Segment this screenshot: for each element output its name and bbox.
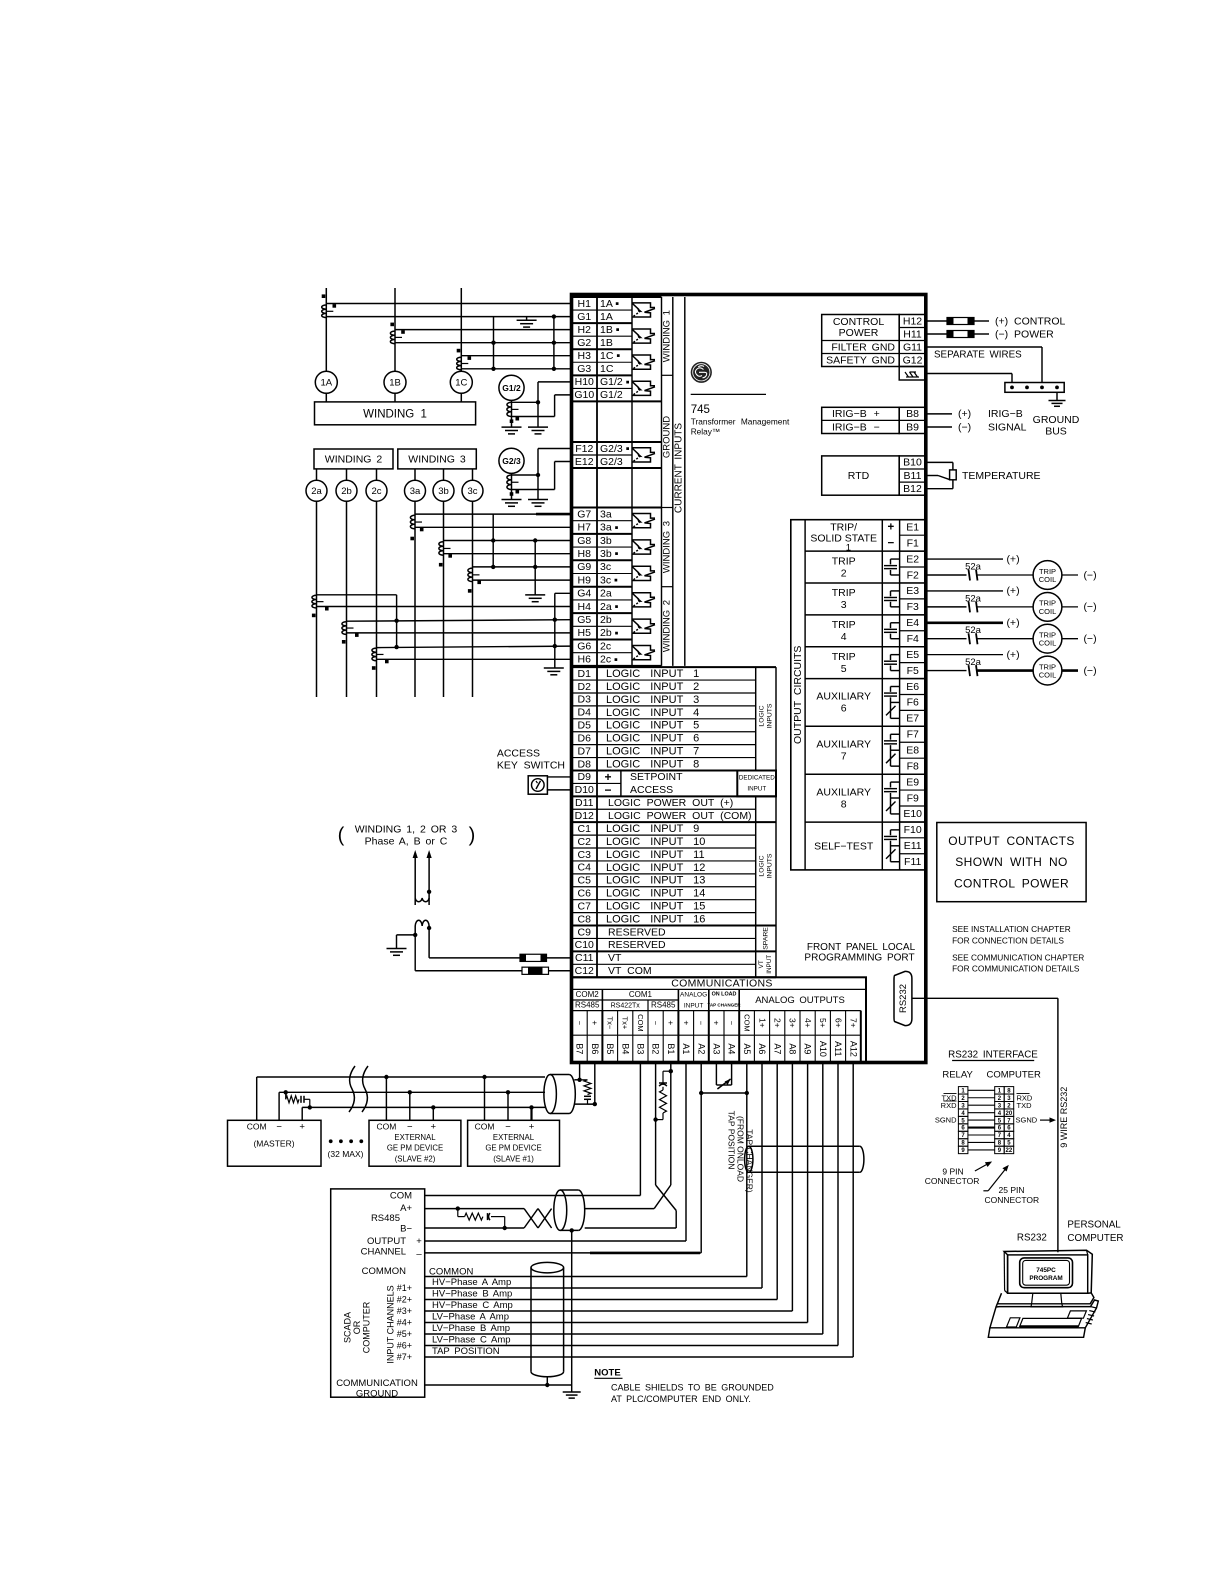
svg-text:VT COM: VT COM bbox=[608, 965, 652, 977]
svg-text:#7+: #7+ bbox=[397, 1352, 412, 1362]
svg-text:B11: B11 bbox=[904, 470, 922, 482]
svg-text:COM: COM bbox=[390, 1191, 412, 1202]
trip 3 external circuit bbox=[926, 585, 1097, 621]
analog output wire 4 bbox=[425, 1063, 808, 1323]
svg-text:Transformer Management: Transformer Management bbox=[691, 417, 790, 427]
svg-text:+: + bbox=[416, 1236, 422, 1247]
node 3a bbox=[405, 469, 426, 501]
communications terminal row bbox=[575, 1041, 859, 1057]
svg-text:LOGIC: LOGIC bbox=[758, 705, 765, 726]
svg-text:2b ▪: 2b ▪ bbox=[600, 627, 619, 639]
analog input header bbox=[680, 991, 707, 1009]
svg-text:CHANNEL: CHANNEL bbox=[361, 1246, 406, 1257]
svg-text:C11: C11 bbox=[575, 952, 594, 964]
svg-text:LOGIC: LOGIC bbox=[758, 855, 765, 876]
svg-text:(+) CONTROL: (+) CONTROL bbox=[995, 315, 1066, 327]
svg-text:D2: D2 bbox=[578, 681, 592, 693]
svg-text:C2: C2 bbox=[578, 836, 592, 848]
CT polarity symbol bbox=[632, 514, 655, 528]
logic power out rows D11 D12 bbox=[572, 796, 777, 822]
svg-text:D6: D6 bbox=[578, 732, 592, 744]
svg-text:(SLAVE #2): (SLAVE #2) bbox=[395, 1154, 436, 1163]
svg-text:#6+: #6+ bbox=[397, 1340, 412, 1350]
access key switch S1 bbox=[497, 747, 565, 794]
winding 1 phase B bus bbox=[394, 288, 396, 371]
trip 2 contact bbox=[884, 559, 900, 575]
svg-text:1C: 1C bbox=[600, 363, 614, 375]
rc terminator at scada bbox=[456, 1206, 507, 1230]
svg-text:(: ( bbox=[338, 824, 345, 846]
winding1 CT common tie 2 bbox=[552, 314, 556, 371]
svg-text:G12: G12 bbox=[903, 354, 923, 366]
wire CT3a H lead to H7 bbox=[415, 526, 572, 528]
svg-text:A1: A1 bbox=[681, 1043, 691, 1054]
svg-text:BUS: BUS bbox=[1045, 426, 1067, 438]
svg-text:A2: A2 bbox=[696, 1043, 706, 1054]
irig-b block bbox=[822, 407, 926, 433]
CT polarity symbol bbox=[632, 448, 655, 462]
svg-text:F2: F2 bbox=[907, 569, 919, 581]
auxiliary 8 label bbox=[816, 786, 871, 810]
svg-text:RS232: RS232 bbox=[898, 984, 909, 1013]
svg-text:ANALOG OUTPUTS: ANALOG OUTPUTS bbox=[755, 995, 845, 1006]
svg-text:B5: B5 bbox=[605, 1043, 615, 1054]
svg-text:52a: 52a bbox=[965, 657, 982, 668]
svg-text:VT: VT bbox=[758, 960, 765, 968]
svg-text:GROUND: GROUND bbox=[356, 1389, 398, 1400]
svg-text:B8: B8 bbox=[906, 408, 919, 420]
svg-text:TAP POSITION: TAP POSITION bbox=[432, 1346, 500, 1357]
svg-text:F8: F8 bbox=[907, 760, 919, 772]
svg-text:D12: D12 bbox=[575, 810, 594, 822]
svg-text:IRIG−B: IRIG−B bbox=[988, 408, 1023, 420]
svg-text:HV−Phase B Amp: HV−Phase B Amp bbox=[432, 1289, 512, 1300]
svg-text:−: − bbox=[575, 1021, 584, 1026]
ground below G2/3 CT bbox=[502, 500, 522, 507]
svg-text:Relay™: Relay™ bbox=[691, 427, 721, 437]
rs232 front port connector bbox=[894, 971, 912, 1025]
cable shield rs485 scada bbox=[554, 1190, 567, 1230]
svg-text:745: 745 bbox=[691, 404, 710, 416]
svg-text:G8: G8 bbox=[577, 535, 591, 547]
svg-text:G1/2: G1/2 bbox=[502, 383, 521, 393]
wire G2/3 to F12 bbox=[512, 449, 572, 500]
svg-text:Tx+: Tx+ bbox=[621, 1017, 630, 1030]
svg-text:INPUT: INPUT bbox=[684, 1002, 704, 1009]
ground bus bbox=[1005, 383, 1080, 438]
svg-text:E3: E3 bbox=[906, 585, 919, 597]
slave 1 device box bbox=[468, 1120, 560, 1166]
svg-text:SGND: SGND bbox=[935, 1116, 957, 1125]
dedicated input box bbox=[737, 771, 776, 797]
svg-text:COIL: COIL bbox=[1039, 639, 1057, 648]
svg-text:+: + bbox=[529, 1122, 535, 1133]
svg-text:H2: H2 bbox=[578, 324, 592, 336]
ground CT G2/3 bbox=[499, 448, 524, 499]
svg-text:A9: A9 bbox=[803, 1043, 813, 1054]
setpoint access rows D9 D10 bbox=[572, 770, 777, 797]
svg-text:NOTE: NOTE bbox=[594, 1367, 620, 1378]
rc terminator at master bbox=[284, 1090, 312, 1110]
wire G12 chassis to ground bus bbox=[926, 374, 1012, 383]
CT polarity symbol bbox=[632, 566, 655, 580]
svg-text:TEMPERATURE: TEMPERATURE bbox=[962, 470, 1041, 482]
input channels cable shield bbox=[531, 1262, 564, 1272]
svg-text:H11: H11 bbox=[903, 328, 922, 340]
control power block bbox=[822, 315, 926, 367]
svg-text:52a: 52a bbox=[965, 562, 982, 573]
svg-text:(+): (+) bbox=[958, 408, 971, 420]
svg-text:H4: H4 bbox=[578, 601, 592, 613]
svg-text:COIL: COIL bbox=[1039, 575, 1057, 584]
winding 3 phase buses bbox=[415, 501, 473, 697]
rs485 wires to scada bbox=[425, 1209, 524, 1228]
svg-text:AUXILIARY: AUXILIARY bbox=[816, 786, 871, 798]
svg-text:RS232 INTERFACE: RS232 INTERFACE bbox=[948, 1049, 1038, 1060]
svg-text:SEE COMMUNICATION CHAPTER: SEE COMMUNICATION CHAPTER bbox=[952, 953, 1084, 963]
svg-text:IRIG−B +: IRIG−B + bbox=[832, 408, 880, 420]
CT polarity symbol bbox=[632, 329, 655, 343]
svg-text:1C: 1C bbox=[455, 378, 467, 389]
master wires up bbox=[257, 1077, 303, 1120]
svg-text:#5+: #5+ bbox=[397, 1329, 412, 1339]
svg-text:GROUND: GROUND bbox=[662, 416, 673, 458]
svg-text:B7: B7 bbox=[575, 1043, 585, 1054]
svg-text:9 WIRE RS232: 9 WIRE RS232 bbox=[1059, 1087, 1069, 1148]
svg-text:COM: COM bbox=[376, 1121, 396, 1131]
trip 5 contact bbox=[884, 655, 900, 671]
node 2a bbox=[306, 469, 327, 501]
svg-text:AUXILIARY: AUXILIARY bbox=[816, 739, 871, 751]
svg-text:G2: G2 bbox=[577, 337, 591, 349]
svg-text:CURRENT INPUTS: CURRENT INPUTS bbox=[674, 423, 685, 513]
svg-text:RXD: RXD bbox=[941, 1101, 957, 1110]
svg-text:TRIP: TRIP bbox=[832, 555, 856, 567]
analog output wire 2 bbox=[425, 1063, 778, 1300]
svg-text:C7: C7 bbox=[578, 900, 592, 912]
wire CT2a H lead to H4 bbox=[317, 606, 572, 608]
wire rs232 port to computer bbox=[912, 998, 1058, 1252]
VT secondary winding bbox=[415, 920, 431, 958]
svg-text:SPARE: SPARE bbox=[763, 927, 770, 950]
svg-text:GE PM DEVICE: GE PM DEVICE bbox=[387, 1144, 443, 1153]
svg-text:TRIP: TRIP bbox=[832, 651, 856, 663]
winding 2 box bbox=[314, 449, 393, 469]
svg-text:TAP CHANGER: TAP CHANGER bbox=[707, 1002, 741, 1007]
personal computer laptop bbox=[988, 1250, 1098, 1337]
analog output wire 3 bbox=[425, 1063, 793, 1312]
svg-text:E9: E9 bbox=[906, 776, 919, 788]
svg-text:G1/2 ▪: G1/2 ▪ bbox=[600, 376, 630, 388]
svg-text:RTD: RTD bbox=[848, 470, 870, 482]
svg-text:C1: C1 bbox=[578, 823, 592, 835]
svg-text:G10: G10 bbox=[574, 389, 594, 401]
CT 1B bbox=[390, 323, 404, 344]
communications strip frame bbox=[572, 977, 867, 1062]
svg-text:LOGIC INPUT 9: LOGIC INPUT 9 bbox=[606, 823, 699, 835]
trip 2 label bbox=[832, 555, 856, 579]
svg-text:G11: G11 bbox=[903, 341, 922, 353]
scada computer box bbox=[331, 1189, 425, 1400]
svg-text:D7: D7 bbox=[578, 745, 592, 757]
svg-text:E11: E11 bbox=[904, 840, 922, 852]
terminal strip ground CT section F12 E12 bbox=[572, 442, 662, 468]
B2 B1 wires with crossover bbox=[585, 1063, 677, 1229]
svg-text:H3: H3 bbox=[578, 350, 592, 362]
trip 5 label bbox=[832, 651, 856, 675]
svg-text:−: − bbox=[651, 1021, 660, 1026]
svg-text:(−): (−) bbox=[1083, 633, 1096, 645]
svg-text:PERSONAL: PERSONAL bbox=[1067, 1220, 1121, 1231]
svg-text:SEPARATE WIRES: SEPARATE WIRES bbox=[934, 349, 1022, 360]
svg-text:G4: G4 bbox=[577, 588, 591, 600]
svg-text:G2/3: G2/3 bbox=[502, 456, 521, 466]
svg-text:LOGIC INPUT 14: LOGIC INPUT 14 bbox=[606, 888, 705, 900]
svg-text:LOGIC INPUT 11: LOGIC INPUT 11 bbox=[606, 849, 705, 861]
svg-text:TRIP: TRIP bbox=[832, 619, 856, 631]
svg-text:COIL: COIL bbox=[1039, 671, 1057, 680]
svg-text:(−): (−) bbox=[1083, 601, 1096, 613]
svg-text:F5: F5 bbox=[907, 665, 919, 677]
svg-text:OUTPUT CONTACTS: OUTPUT CONTACTS bbox=[948, 834, 1075, 848]
winding2 CT tie to G4 and ground bbox=[544, 593, 572, 675]
winding3 CT common tie 1 bbox=[491, 514, 495, 569]
svg-text:IRIG−B −: IRIG−B − bbox=[832, 421, 880, 433]
wire labels common and channels bbox=[429, 1266, 513, 1357]
svg-text:LOGIC POWER OUT (+): LOGIC POWER OUT (+) bbox=[608, 797, 733, 809]
svg-text:A4: A4 bbox=[727, 1043, 737, 1054]
output contacts note box bbox=[937, 823, 1086, 902]
svg-text:2: 2 bbox=[841, 567, 847, 579]
svg-text:5: 5 bbox=[841, 663, 847, 675]
svg-text:WINDING 3: WINDING 3 bbox=[662, 521, 673, 573]
note cable shields bbox=[594, 1367, 774, 1404]
relay 745 outer case bbox=[572, 295, 926, 1063]
svg-text:1A: 1A bbox=[600, 311, 613, 323]
svg-text:1B: 1B bbox=[389, 378, 401, 389]
svg-text:SELF−TEST: SELF−TEST bbox=[814, 840, 874, 852]
svg-text:WINDING 2: WINDING 2 bbox=[662, 600, 673, 652]
svg-text:AUXILIARY: AUXILIARY bbox=[816, 691, 871, 703]
svg-text:RS232: RS232 bbox=[1017, 1232, 1047, 1243]
svg-text:G7: G7 bbox=[577, 508, 591, 520]
svg-text:2c ▪: 2c ▪ bbox=[600, 654, 618, 666]
svg-text:G1/2: G1/2 bbox=[600, 389, 623, 401]
VT ground bbox=[387, 933, 418, 956]
svg-text:+: + bbox=[604, 770, 611, 784]
svg-text:EXTERNAL: EXTERNAL bbox=[394, 1133, 436, 1142]
relay title text bbox=[691, 394, 790, 436]
svg-text:+: + bbox=[431, 1122, 437, 1133]
chassis ground cell below G12 bbox=[899, 367, 926, 381]
ground CT G1/2 bbox=[499, 375, 524, 427]
svg-text:2+: 2+ bbox=[772, 1018, 782, 1028]
wire B9 irig minus bbox=[926, 421, 1027, 433]
svg-text:G9: G9 bbox=[577, 561, 591, 573]
winding 1 box bbox=[315, 393, 476, 425]
svg-text:WINDING 1: WINDING 1 bbox=[662, 310, 673, 362]
svg-text:A6: A6 bbox=[757, 1043, 767, 1054]
svg-text:5+: 5+ bbox=[818, 1018, 828, 1028]
VT primary leads with arrows bbox=[413, 850, 432, 905]
svg-text:22: 22 bbox=[1006, 1148, 1013, 1154]
svg-text:1C ▪: 1C ▪ bbox=[600, 350, 620, 362]
svg-text:RESERVED: RESERVED bbox=[608, 926, 666, 938]
svg-text:ACCESS: ACCESS bbox=[497, 747, 540, 759]
svg-text:COMMON: COMMON bbox=[429, 1266, 473, 1277]
CT 2a bbox=[312, 595, 329, 617]
fuse on VT wire to C11 bbox=[429, 954, 571, 961]
svg-text:HV−Phase C Amp: HV−Phase C Amp bbox=[432, 1300, 513, 1311]
wire CT2a G lead to tie bbox=[317, 594, 397, 596]
cable shield drain to ground bbox=[570, 1228, 574, 1385]
svg-text:LOGIC INPUT 6: LOGIC INPUT 6 bbox=[606, 733, 699, 745]
svg-text:−: − bbox=[276, 1122, 282, 1133]
svg-text:): ) bbox=[469, 824, 476, 846]
label control power external bbox=[995, 315, 1066, 340]
svg-text:G2/3: G2/3 bbox=[600, 456, 623, 468]
interface wires bbox=[968, 1090, 995, 1150]
label tap position vertical bbox=[726, 1111, 754, 1193]
relay and computer labels bbox=[942, 1070, 1041, 1081]
node 2c bbox=[366, 469, 387, 501]
tap position wiper wire bbox=[699, 1091, 749, 1095]
svg-text:C4: C4 bbox=[578, 862, 592, 874]
svg-text:HV−Phase A Amp: HV−Phase A Amp bbox=[432, 1277, 511, 1288]
svg-text:GE PM DEVICE: GE PM DEVICE bbox=[485, 1144, 541, 1153]
svg-text:A7: A7 bbox=[772, 1043, 782, 1054]
trip 2 external circuit bbox=[926, 553, 1097, 589]
node 1B bbox=[384, 371, 406, 393]
svg-text:52a: 52a bbox=[965, 625, 982, 636]
svg-text:1+: 1+ bbox=[757, 1018, 767, 1028]
svg-text:ANALOG: ANALOG bbox=[680, 991, 707, 998]
slave2 wires up bbox=[384, 1075, 435, 1121]
svg-text:F6: F6 bbox=[907, 697, 919, 709]
trip 3 label bbox=[832, 587, 856, 611]
svg-text:G3: G3 bbox=[577, 363, 591, 375]
svg-text:4: 4 bbox=[841, 631, 847, 643]
wire G11 to ground bus bbox=[926, 347, 1042, 383]
node 3c bbox=[462, 469, 483, 501]
A2 wire to output channel minus bbox=[425, 1063, 702, 1253]
analog output wire 5 bbox=[425, 1063, 823, 1335]
svg-text:TXD: TXD bbox=[1017, 1101, 1033, 1110]
ground on H10 lead bbox=[528, 427, 548, 434]
CT polarity symbol bbox=[632, 381, 655, 395]
svg-text:GROUND: GROUND bbox=[1033, 414, 1080, 426]
svg-text:LOGIC INPUT 16: LOGIC INPUT 16 bbox=[606, 913, 705, 925]
svg-text:E5: E5 bbox=[906, 649, 919, 661]
communications column dividers bbox=[572, 989, 861, 1062]
svg-text:E6: E6 bbox=[906, 681, 919, 693]
svg-text:+: + bbox=[712, 1020, 722, 1025]
ground on F12 lead bbox=[528, 500, 548, 507]
node 3b bbox=[433, 469, 454, 501]
svg-text:C3: C3 bbox=[578, 849, 592, 861]
node 2b bbox=[336, 469, 357, 501]
B3 COM wire to scada bbox=[425, 1063, 641, 1196]
node 1A bbox=[315, 371, 337, 393]
svg-text:1A: 1A bbox=[320, 378, 332, 389]
svg-text:DEDICATED: DEDICATED bbox=[739, 775, 775, 782]
wire CT2b H lead to H5 bbox=[347, 632, 572, 634]
svg-text:RS485: RS485 bbox=[651, 1001, 676, 1010]
svg-text:OUTPUT CIRCUITS: OUTPUT CIRCUITS bbox=[792, 646, 804, 744]
label logic inputs vertical (D group) bbox=[758, 703, 773, 728]
wire CT1B G lead to G2 bbox=[395, 342, 572, 344]
fuse on VT COM wire to C12 bbox=[415, 935, 571, 974]
svg-text:TAP POSITION: TAP POSITION bbox=[726, 1111, 736, 1170]
reserved rows C9 C10 spare bbox=[572, 926, 777, 952]
svg-text:F7: F7 bbox=[907, 729, 919, 741]
svg-text:(SLAVE #1): (SLAVE #1) bbox=[493, 1154, 534, 1163]
label logic inputs vertical (C group) bbox=[758, 853, 773, 878]
computer side signal labels bbox=[1016, 1093, 1057, 1124]
slave1 wires up bbox=[482, 1075, 533, 1121]
svg-text:2a ▪: 2a ▪ bbox=[600, 601, 619, 613]
svg-text:+: + bbox=[888, 522, 895, 534]
svg-text:D11: D11 bbox=[575, 797, 594, 809]
communications sign row bbox=[575, 1014, 858, 1032]
svg-text:D4: D4 bbox=[578, 707, 592, 719]
winding 2 phase buses bbox=[317, 501, 377, 697]
analog outputs cable shield bbox=[745, 1146, 753, 1172]
A5 common wire to scada bbox=[425, 1063, 747, 1277]
logic rows right columns bbox=[756, 667, 776, 977]
wire B8 irig plus bbox=[926, 408, 1023, 420]
front panel programming port label bbox=[804, 942, 915, 963]
svg-text:E1: E1 bbox=[906, 521, 919, 533]
svg-text:B2: B2 bbox=[651, 1043, 661, 1054]
see installation chapter note bbox=[952, 924, 1084, 974]
svg-text:LOGIC INPUT 2: LOGIC INPUT 2 bbox=[606, 681, 699, 693]
svg-text:TRIP: TRIP bbox=[832, 587, 856, 599]
svg-text:SOLID STATE: SOLID STATE bbox=[810, 533, 877, 545]
CT polarity symbol bbox=[632, 646, 655, 660]
svg-text:WINDING 1, 2 OR 3: WINDING 1, 2 OR 3 bbox=[355, 823, 458, 835]
svg-text:1B ▪: 1B ▪ bbox=[600, 324, 620, 336]
trip 3 contact bbox=[884, 591, 900, 607]
logic inputs D1-D8 rows bbox=[572, 667, 777, 770]
svg-text:6: 6 bbox=[841, 703, 847, 715]
winding 1 phase A bus bbox=[325, 288, 327, 371]
CT 3c bbox=[468, 568, 481, 593]
svg-text:H5: H5 bbox=[578, 627, 592, 639]
svg-text:+: + bbox=[299, 1122, 305, 1133]
CT 1A bbox=[322, 294, 336, 317]
svg-text:3a ▪: 3a ▪ bbox=[600, 522, 619, 534]
svg-text:3b: 3b bbox=[600, 535, 612, 547]
svg-text:WINDING 2: WINDING 2 bbox=[325, 454, 383, 466]
svg-text:COM: COM bbox=[636, 1014, 645, 1032]
GE logo bbox=[691, 362, 712, 383]
svg-text:SEE INSTALLATION CHAPTER: SEE INSTALLATION CHAPTER bbox=[952, 924, 1071, 934]
25 pin connector label bbox=[983, 1165, 1039, 1205]
analog output wire 1 bbox=[425, 1063, 762, 1289]
terminal strip winding 3 and winding 2 current sections bbox=[572, 508, 662, 666]
svg-text:SAFETY GND: SAFETY GND bbox=[826, 354, 895, 366]
label personal computer bbox=[1067, 1220, 1123, 1245]
svg-text:+: + bbox=[681, 1020, 691, 1025]
slave 2 device box bbox=[369, 1120, 461, 1166]
svg-text:FOR CONNECTION DETAILS: FOR CONNECTION DETAILS bbox=[952, 936, 1064, 946]
svg-text:E12: E12 bbox=[575, 456, 594, 468]
wire key switch to D10 bbox=[547, 789, 571, 791]
wire CT1A H lead to H1 bbox=[326, 303, 571, 305]
svg-text:TRIP/: TRIP/ bbox=[830, 521, 857, 533]
terminal strip current inputs winding 1 section bbox=[572, 297, 662, 401]
